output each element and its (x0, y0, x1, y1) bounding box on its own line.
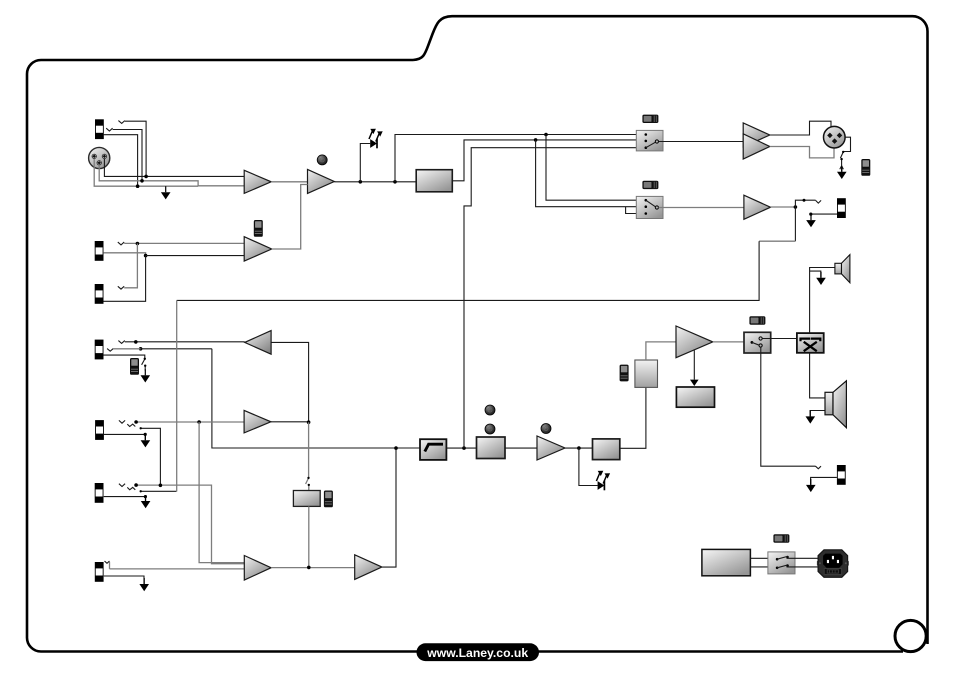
node line out return tap (794, 205, 798, 209)
block EQ box (477, 437, 506, 459)
ground input channel 1 (161, 186, 171, 199)
line out jack switch contact (803, 199, 806, 202)
jack J4 FX send (95, 340, 104, 360)
wire XLR pin1 sleeve (94, 159, 198, 186)
svg-text:www.Laney.co.uk: www.Laney.co.uk (426, 646, 528, 660)
node J4 tip junction (134, 340, 138, 344)
wire crossover down to woofer (810, 353, 825, 398)
slide switch ground lift (861, 159, 870, 176)
block driver box (635, 360, 658, 387)
jack J5 FX return (95, 420, 104, 440)
switch box SB2 line out (636, 196, 663, 218)
jack J3 tip contact (118, 286, 124, 289)
switch contact dots FX (307, 477, 309, 479)
wire driver box to power amp (646, 342, 676, 360)
slide switch channel2 (254, 220, 263, 237)
wire U6 out to U7 (271, 567, 355, 569)
wire down to switch SB2 pin1 (546, 135, 645, 201)
ground line jack (806, 214, 816, 227)
jack J6 tip contact (119, 484, 135, 490)
op-amp balanced line drivers (743, 123, 770, 147)
wire J7 sleeve (104, 576, 144, 584)
slide switch speaker (749, 316, 765, 324)
wire limiter to DI box (620, 387, 646, 448)
wire J5 tip to sum bus (136, 421, 244, 423)
node J1 sleeve junction (136, 184, 140, 188)
node J5 ring contact (140, 427, 142, 429)
node J4 ring junction (139, 347, 143, 351)
jack J1 ring switch contact (106, 128, 112, 131)
wire horn ground tap (810, 271, 821, 278)
slide switch SB1 (642, 115, 658, 123)
node J2 sleeve junction (144, 254, 148, 258)
jack J3 line input R (95, 284, 104, 304)
ground J4 (141, 369, 151, 382)
wire woofer ground tap (810, 411, 825, 417)
node J5 sleeve junction (144, 433, 147, 436)
wire switch to crossover (762, 338, 797, 340)
IEC mains inlet with fuse holder (817, 550, 849, 578)
node J5 branch junction (197, 420, 201, 424)
wire PA out to speaker switch (713, 341, 752, 343)
wire J1 ring to node (113, 130, 142, 181)
jack J2 line input L (95, 241, 104, 261)
wire J5 branch down to sum amp (199, 422, 244, 563)
wire XLR shell lift switch (840, 137, 851, 172)
wire U2 output bus (334, 181, 416, 183)
node FX return junction (307, 566, 311, 570)
wire bus up to record out (395, 135, 645, 182)
crossover box X (797, 333, 824, 353)
ground horn (816, 272, 826, 285)
wire U9 out to jack (771, 206, 796, 208)
jack J1 mic/line input (95, 119, 104, 139)
wire line jack sleeve to ground (811, 213, 837, 215)
op-amp U2 gain stage (308, 169, 335, 193)
wire box out up to line out (452, 140, 645, 181)
wire U5 output (271, 421, 309, 423)
jack J5 tip contact (119, 420, 135, 426)
wire J6 sleeve (104, 497, 146, 501)
block power supply transformer (702, 549, 751, 575)
op-amp U4 FX send driver (245, 331, 271, 355)
arrow into supply box (690, 380, 699, 386)
wire EQ to U8 (505, 447, 537, 449)
wire tap up to jack switch (795, 200, 815, 207)
wire tap up to record switch (464, 148, 645, 448)
wire driver cold to XLR out (770, 147, 834, 158)
node J6 sleeve junction (144, 495, 147, 498)
jack J6 aux input (95, 483, 104, 503)
wire J2 sleeve to node (103, 253, 145, 256)
wire driver hot to XLR out (770, 121, 831, 135)
wire PSU to mains switch (750, 558, 777, 567)
wire J1 tip to node (125, 121, 146, 176)
corner circle (895, 620, 926, 651)
wire to peak LED (360, 144, 370, 182)
node J6 tip junction (134, 483, 138, 487)
block preamp out box (416, 170, 452, 192)
op-amp PA power amp (676, 326, 713, 358)
www.Laney.co.uk pill (417, 643, 540, 661)
potentiometer EQ treble (485, 424, 495, 434)
speaker horn tweeter (835, 255, 850, 283)
node LED tap (359, 180, 363, 184)
jack J4 tip contact (118, 341, 124, 344)
wire return line long path (794, 207, 796, 241)
wire J4 tip from send amp (125, 341, 245, 343)
wire U1 out to U2 (271, 181, 307, 183)
switch contact dots J4 (144, 358, 146, 360)
node limit LED tap (577, 446, 581, 450)
ground woofer (806, 410, 816, 423)
wire FX box down to sum (308, 506, 310, 567)
wire switch down to extension jack (761, 347, 816, 466)
block HPF filter box (420, 439, 446, 460)
wire ext jack sleeve to ground (811, 477, 837, 485)
wire J4 ring to main chain (113, 348, 140, 350)
jack J1 tip switch contact (118, 121, 124, 124)
XLR input connector (89, 147, 110, 168)
wire FX loop down to footswitch (306, 422, 309, 490)
LED limit indicator (596, 471, 610, 491)
wire J6 ring to return line (141, 490, 177, 492)
wire U4 input from bus (271, 342, 309, 422)
jack extension speaker (837, 465, 846, 485)
node line out junction (534, 138, 538, 142)
wire U7 out up to main chain (382, 448, 396, 567)
block limiter box (593, 439, 620, 460)
border top tab curve (413, 16, 928, 644)
jack J7 CD input (95, 562, 104, 582)
op-amp U1 mic preamp (244, 170, 271, 193)
switch box SB1 DI/record (636, 130, 663, 151)
wire U3 out up to U2 (272, 185, 308, 250)
node main chain to U7 junction (394, 446, 398, 450)
jack J4 ring contact (107, 349, 113, 352)
LED peak indicator (369, 129, 383, 149)
wire J3 tip normalled to J2 (124, 244, 137, 288)
op-amp U8 master amp (537, 436, 565, 460)
wire U8 out (565, 447, 593, 449)
extension jack switch contact (816, 466, 822, 469)
switch box mains double pole (768, 552, 795, 574)
node J1 tip junction (144, 175, 148, 179)
wire PA down to supply box (693, 350, 695, 379)
slide switch SB2 (642, 181, 658, 189)
HPF curve glyph (425, 444, 443, 451)
block FX footswitch box (293, 491, 320, 507)
op-amp U3 stereo input amp (244, 237, 272, 261)
wire J7 tip to sum amp (110, 562, 245, 569)
node J6 ring contact (140, 490, 142, 492)
potentiometer EQ bass (485, 405, 495, 415)
jack line out (837, 198, 846, 218)
slide switch mains (773, 534, 789, 542)
switch box speaker select (744, 332, 771, 353)
node J1 ring junction (140, 179, 144, 183)
ground XLR shell (837, 166, 847, 179)
node J6 ring-J5 junction (159, 484, 163, 488)
wire sleeve bus to U3 (146, 255, 245, 257)
node J5 tip junction (134, 420, 138, 424)
slide switch FX (324, 491, 333, 508)
wire J5 sleeve (104, 434, 146, 440)
jack J2 tip contact (118, 242, 124, 245)
op-amp U5 return amp (244, 410, 271, 433)
wire J6 tip to sum amp (136, 485, 244, 564)
ground J6 (141, 495, 151, 508)
wire sleeve down to J3 (103, 256, 145, 302)
wire J5 ring down (141, 428, 161, 485)
wire filter to EQ (446, 447, 476, 449)
slide switch J4 pad (130, 358, 139, 375)
wire mains switch to IEC inlet (787, 558, 818, 567)
potentiometer gain (317, 155, 327, 165)
op-amp U9 line out amp (744, 195, 771, 219)
wire to limit LED (579, 448, 598, 485)
wire J4 sleeve with switch to ground (103, 355, 145, 370)
node record out junction (544, 133, 548, 137)
slide switch driver (620, 365, 629, 382)
potentiometer master volume (541, 424, 551, 434)
wire SB2 out to line amp (659, 207, 744, 209)
XLR output connector (824, 126, 846, 148)
wire J2 tip to U3 (124, 242, 244, 244)
node line-out tap (462, 446, 466, 450)
node J2 tip junction (136, 242, 140, 246)
ground ext jack (806, 479, 816, 492)
wire down to switch SB2 pin2 with loop to pin3 (536, 140, 646, 214)
jack J7 tip contact (105, 561, 110, 563)
wire XLR pin2 (hot) to preamp (104, 159, 244, 176)
wire SB1 to balanced driver (659, 141, 744, 143)
ground J5 (141, 434, 151, 447)
node main bus tap (393, 180, 397, 184)
ground J7 (139, 578, 149, 591)
wire J1 sleeve to node (104, 135, 138, 187)
op-amp U6 summing amp (244, 556, 271, 581)
block fan/protection box (676, 387, 714, 407)
op-amp U7 master buffer (355, 555, 382, 580)
node FX loop junction (307, 420, 311, 424)
wire XLR pin3 to preamp with jog (99, 165, 244, 186)
speaker woofer (825, 381, 846, 428)
wire crossover up to horn (810, 268, 835, 334)
